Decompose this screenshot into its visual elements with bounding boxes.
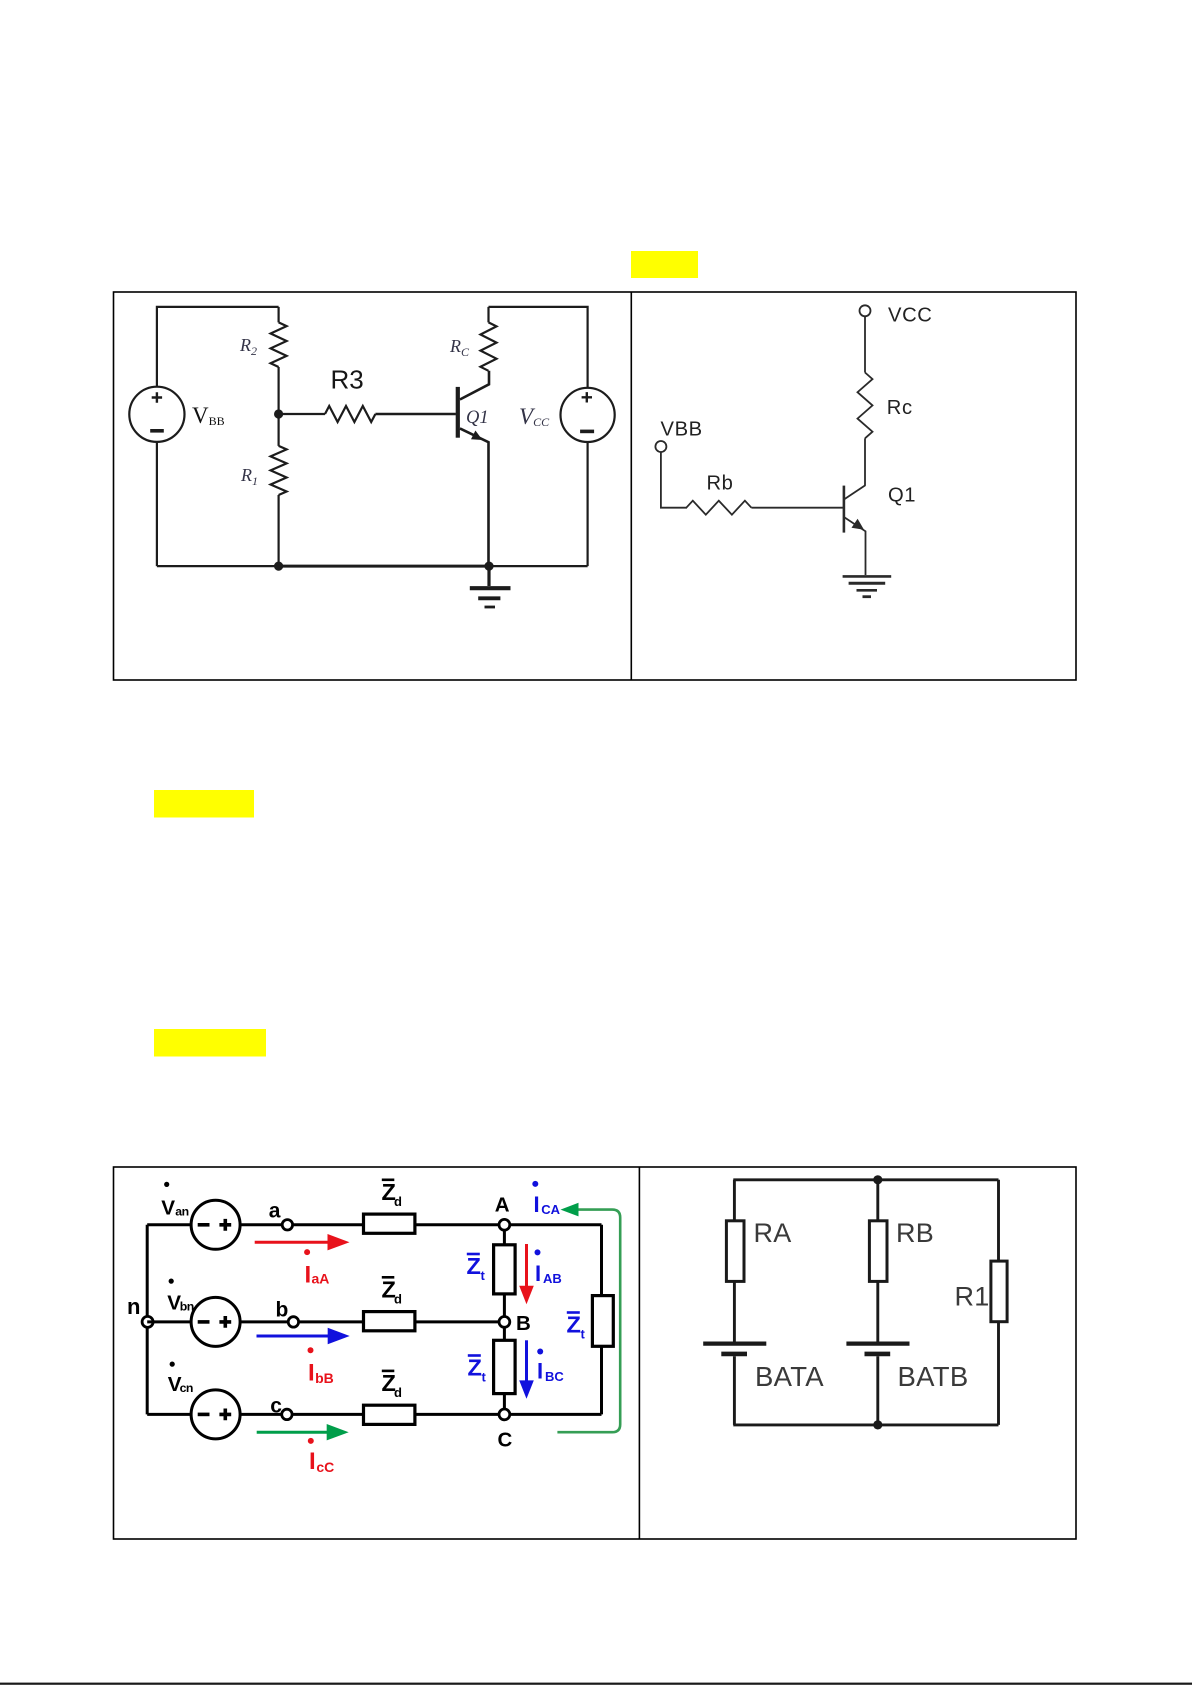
svg-text:I: I	[537, 1359, 543, 1384]
bottom junction dot	[873, 1420, 882, 1429]
svg-text:bn: bn	[180, 1299, 194, 1313]
highlight box 3	[154, 1029, 266, 1057]
wire neutral to Van	[147, 1223, 191, 1226]
svg-text:VBB: VBB	[192, 403, 225, 428]
svg-text:t: t	[581, 1327, 586, 1342]
resistor R1	[278, 414, 280, 446]
wire A to Zt1	[503, 1230, 506, 1245]
label Zd row a	[382, 1179, 403, 1209]
VBB plus sign	[152, 392, 162, 402]
svg-text:I: I	[535, 1261, 541, 1286]
current arrow IBC	[519, 1340, 534, 1399]
node c	[282, 1409, 292, 1419]
label Zt	[468, 1354, 487, 1384]
svg-text:bB: bB	[315, 1370, 334, 1386]
svg-text:Z: Z	[467, 1253, 481, 1279]
svg-text:aA: aA	[312, 1271, 330, 1287]
footer rule	[0, 1683, 1192, 1685]
terminal VCC	[860, 305, 871, 316]
resistor R3	[279, 413, 325, 415]
svg-text:V: V	[161, 1197, 175, 1220]
resistor R1 (right circuit)	[997, 1180, 1000, 1261]
svg-text:R2: R2	[239, 335, 257, 358]
svg-text:cn: cn	[180, 1381, 193, 1395]
wire C to right branch	[510, 1413, 602, 1416]
transistor Q1 base bar	[456, 387, 460, 438]
svg-text:Q1: Q1	[466, 408, 489, 428]
wire VCC to Rc	[864, 316, 866, 372]
source VBB circle	[129, 387, 184, 442]
svg-text:BC: BC	[545, 1369, 564, 1384]
svg-text:c: c	[270, 1395, 282, 1418]
current loop ICA arrowhead	[561, 1203, 579, 1217]
source Vcn circle	[191, 1390, 240, 1439]
svg-text:t: t	[482, 1370, 487, 1385]
VBB minus sign	[150, 429, 164, 433]
Van plus sign	[219, 1219, 231, 1231]
current arrow IAB	[519, 1244, 534, 1304]
svg-text:VCC: VCC	[519, 404, 550, 429]
resistor Rb	[686, 501, 751, 515]
wire neutral to Vcn	[147, 1413, 191, 1416]
wire Zd to B	[415, 1320, 499, 1323]
svg-text:RB: RB	[896, 1218, 934, 1248]
node n	[142, 1316, 153, 1327]
Vbn minus sign	[198, 1320, 210, 1324]
wire Zd to A	[415, 1223, 499, 1226]
wire Vbn to node b	[240, 1320, 288, 1323]
svg-text:BATB: BATB	[898, 1361, 969, 1392]
wire Rb to base	[751, 507, 843, 509]
table 2 frame	[114, 1167, 1077, 1539]
impedance Zd row a	[364, 1214, 415, 1233]
svg-text:Q1: Q1	[888, 485, 916, 507]
transistor Q1 collector lead (right)	[844, 485, 866, 499]
label IcC	[308, 1438, 335, 1475]
wire VCC bottom	[586, 442, 588, 566]
label Zt	[467, 1253, 486, 1283]
svg-text:an: an	[175, 1205, 188, 1219]
label IaA	[304, 1249, 329, 1288]
svg-text:R1: R1	[955, 1282, 990, 1312]
neutral bus vertical wire	[146, 1225, 149, 1415]
source Van circle	[191, 1200, 240, 1249]
table 1 frame	[114, 292, 1077, 680]
label Vcn	[168, 1362, 193, 1397]
current arrow IbB	[257, 1328, 350, 1344]
wire R3 to base	[375, 413, 456, 416]
wire VBB bottom	[156, 442, 158, 566]
svg-text:n: n	[127, 1294, 140, 1319]
svg-text:C: C	[498, 1429, 513, 1452]
wire VBB to Rb	[661, 452, 687, 508]
svg-text:Rb: Rb	[707, 473, 734, 495]
wire neutral to Vbn	[147, 1320, 191, 1323]
current arrow IcC	[257, 1424, 349, 1440]
junction dot left	[274, 562, 283, 571]
bottom wire (right circuit)	[733, 1423, 998, 1426]
svg-text:cC: cC	[316, 1459, 334, 1475]
Vcn minus sign	[198, 1413, 210, 1417]
junction dot right	[484, 562, 493, 571]
svg-text:R1: R1	[240, 465, 258, 488]
svg-text:I: I	[305, 1261, 312, 1288]
label IAB	[535, 1249, 562, 1286]
svg-text:VBB: VBB	[661, 418, 703, 440]
svg-text:I: I	[309, 1448, 316, 1475]
label ICA	[532, 1181, 560, 1217]
svg-text:d: d	[394, 1194, 402, 1209]
svg-text:d: d	[394, 1385, 402, 1400]
wire Zt2 to C	[503, 1394, 506, 1409]
wire A to right branch	[510, 1223, 602, 1226]
svg-text:b: b	[276, 1299, 289, 1322]
label Van	[161, 1182, 188, 1220]
ground symbol left circuit	[470, 566, 511, 607]
wire B to Zt2	[503, 1327, 506, 1340]
current arrow IaA	[255, 1234, 350, 1250]
node B	[499, 1317, 510, 1328]
svg-text:R3: R3	[331, 365, 364, 395]
Vcn plus sign	[219, 1409, 231, 1421]
wire Vcn to node c	[240, 1413, 282, 1416]
transistor Q1 emitter arrow (right)	[852, 519, 865, 530]
Van minus sign	[198, 1223, 210, 1227]
resistor RC	[487, 307, 489, 323]
label IbB	[308, 1347, 334, 1386]
battery BATB	[846, 1341, 909, 1345]
node C	[499, 1409, 510, 1420]
resistor RB	[876, 1180, 879, 1220]
source VCC circle	[561, 388, 615, 442]
impedance Zt B-C	[494, 1340, 515, 1393]
bottom wire	[157, 565, 588, 567]
highlight box 2	[154, 790, 254, 818]
svg-text:VCC: VCC	[888, 305, 932, 327]
svg-text:A: A	[495, 1193, 510, 1216]
node b	[288, 1317, 298, 1327]
resistor Rc	[858, 373, 873, 439]
wire Rc to collector	[864, 438, 866, 485]
transistor Q1 emitter lead	[460, 428, 489, 566]
top junction dot	[873, 1175, 882, 1184]
svg-text:B: B	[516, 1312, 531, 1335]
terminal VBB	[655, 441, 666, 452]
impedance Zd row c	[364, 1405, 415, 1424]
svg-text:I: I	[308, 1360, 315, 1387]
transistor Q1 emitter lead (right)	[844, 517, 866, 575]
label IBC	[537, 1349, 564, 1385]
transistor Q1 base bar (right)	[843, 486, 846, 533]
wire RC top to VCC	[489, 307, 588, 388]
impedance Zt A-B	[494, 1245, 515, 1294]
svg-text:d: d	[394, 1291, 402, 1306]
top wire (right circuit)	[733, 1178, 998, 1181]
node base divider junction	[274, 409, 283, 418]
ground symbol right circuit	[843, 576, 892, 596]
highlight box 1	[631, 251, 698, 278]
wire Van to node a	[240, 1223, 282, 1226]
wire node c to Zd	[292, 1413, 363, 1416]
resistor RA	[733, 1180, 736, 1220]
svg-text:a: a	[269, 1200, 281, 1223]
wire VBB top to R2 top	[157, 307, 279, 387]
svg-text:Z: Z	[567, 1312, 581, 1338]
svg-text:RC: RC	[449, 336, 470, 359]
svg-text:t: t	[481, 1268, 486, 1283]
node A	[499, 1219, 510, 1230]
svg-text:BATA: BATA	[755, 1361, 824, 1392]
label Zd row b	[382, 1276, 403, 1306]
wire node a to Zd	[293, 1223, 364, 1226]
wire Zt1 to B	[503, 1294, 506, 1317]
transistor Q1 emitter arrow	[471, 431, 483, 441]
current loop ICA green path	[557, 1210, 620, 1433]
VCC minus sign	[580, 430, 594, 434]
label Zt	[567, 1311, 586, 1341]
VCC plus sign	[582, 392, 592, 402]
svg-text:AB: AB	[543, 1271, 562, 1286]
svg-text:I: I	[534, 1192, 540, 1217]
wire node b to Zd	[299, 1320, 364, 1323]
svg-text:RA: RA	[754, 1218, 792, 1248]
resistor R2	[278, 307, 280, 323]
impedance Zt C-A	[592, 1296, 613, 1347]
label Vbn	[167, 1279, 194, 1315]
label Zd row c	[382, 1370, 403, 1400]
battery BATA	[703, 1341, 766, 1345]
transistor Q1 collector lead	[460, 371, 489, 400]
svg-text:CA: CA	[541, 1202, 560, 1217]
svg-text:Rc: Rc	[887, 397, 913, 419]
impedance Zd row b	[364, 1312, 415, 1331]
Vbn plus sign	[219, 1316, 231, 1328]
node a	[282, 1220, 292, 1230]
wire Zd to C	[415, 1413, 499, 1416]
right branch vertical wire	[600, 1225, 603, 1415]
svg-text:Z: Z	[468, 1355, 482, 1381]
source Vbn circle	[191, 1297, 240, 1346]
